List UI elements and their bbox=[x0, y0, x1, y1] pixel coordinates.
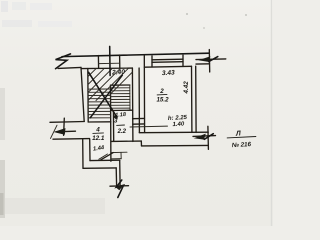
svg-text:1.40: 1.40 bbox=[172, 121, 185, 128]
stair flight diagonal down bbox=[89, 72, 117, 117]
room2 left wall inner line bbox=[143, 56, 145, 133]
stair flight diagonal up bbox=[90, 75, 122, 118]
staircase box bottom-left bbox=[88, 121, 111, 123]
staircase box left bbox=[87, 69, 89, 122]
left edge scan smudge lower bbox=[0, 160, 5, 218]
staircase box top bbox=[82, 67, 133, 70]
left edge dark spot bbox=[0, 193, 4, 215]
svg-text:1.18: 1.18 bbox=[115, 112, 127, 119]
window jamb right bbox=[182, 55, 184, 66]
top-right break bolt arrow bbox=[198, 56, 210, 62]
svg-text:12.1: 12.1 bbox=[92, 135, 105, 142]
corridor door jamb top bbox=[111, 151, 127, 153]
stair inner flight left vertical / corridor-room3 wall bbox=[110, 85, 112, 161]
left break tick bbox=[63, 118, 66, 135]
staircase box right / room3 right wall bbox=[131, 68, 134, 141]
left break arrowhead bbox=[54, 128, 66, 135]
wire: outer top wall line bbox=[62, 53, 209, 56]
leader line to h text bbox=[130, 125, 168, 128]
corridor top-left wall line bbox=[50, 121, 84, 124]
svg-text:№ 216: № 216 bbox=[232, 141, 252, 149]
room2 bottom wall top line bbox=[139, 131, 208, 134]
room3 top wall bbox=[111, 109, 133, 111]
stair tall vertical line bbox=[109, 46, 111, 75]
faint right edge line bbox=[271, 0, 272, 226]
wall dash left of 2.40 bbox=[97, 56, 99, 68]
window line 1 bbox=[152, 58, 183, 61]
corridor door jamb bottom bbox=[111, 158, 121, 160]
corridor door jamb right bbox=[120, 152, 122, 158]
window line 2 bbox=[152, 61, 183, 64]
outer bottom wall bbox=[83, 167, 116, 169]
left edge scan smudge upper bbox=[0, 88, 5, 140]
room2 right wall outer bbox=[195, 66, 197, 132]
faint specks bbox=[186, 13, 188, 15]
faint stamp remnant top-left bbox=[1, 1, 72, 27]
bottom break bolt wedge bbox=[116, 185, 124, 191]
stair treads left flight bbox=[88, 89, 111, 118]
outer left wall vertical lower bbox=[82, 139, 84, 168]
bottom-right break tail bbox=[193, 135, 216, 138]
stair inner flight right vertical bbox=[129, 85, 131, 110]
shaft rung 2 bbox=[133, 123, 145, 125]
shaft wall left line (room2 left wall outer) bbox=[138, 68, 140, 133]
bottom break bolt bbox=[116, 180, 123, 198]
lower-left wall line bbox=[53, 138, 90, 141]
svg-text:15.2: 15.2 bbox=[156, 97, 169, 104]
bottom wall lower line bbox=[142, 144, 209, 147]
corridor door leaf 2 bbox=[99, 154, 108, 159]
svg-text:4.42: 4.42 bbox=[183, 81, 190, 95]
top-right break tick bbox=[208, 50, 210, 72]
inner top-left wall line bbox=[58, 67, 81, 68]
svg-text:3.43: 3.43 bbox=[162, 69, 176, 77]
top-right break tail bbox=[196, 58, 226, 61]
svg-text:2.40: 2.40 bbox=[111, 69, 126, 77]
room interiors slightly brighter bbox=[145, 67, 192, 133]
room2 right wall inner bbox=[191, 66, 193, 132]
faint wall mid line bbox=[99, 62, 120, 64]
corridor inner left vertical bbox=[89, 139, 91, 161]
shaft left vertical to bottom break bbox=[115, 168, 117, 186]
bottom-right break tick bbox=[207, 126, 210, 149]
left break diagonal stroke bbox=[51, 125, 58, 138]
stair treads right flight bbox=[111, 88, 130, 108]
top-right break bolt slash bbox=[209, 57, 218, 62]
left wall vertical bbox=[81, 67, 84, 121]
shaft rung 1 bbox=[133, 117, 145, 119]
bottom break tick bbox=[110, 185, 129, 188]
stair arrowhead bbox=[113, 114, 118, 119]
left break arrow tail bbox=[56, 130, 76, 133]
bottom wall jog bbox=[140, 141, 142, 146]
corridor inner bottom line bbox=[90, 159, 120, 161]
svg-text:2: 2 bbox=[159, 88, 164, 95]
room3 left wall inner line bbox=[112, 111, 114, 142]
svg-text:4: 4 bbox=[95, 126, 100, 133]
stair inner flight top bbox=[111, 84, 130, 86]
room2 inner top wall bbox=[144, 65, 191, 68]
top-right stub bottom line bbox=[196, 63, 210, 65]
corridor door leaf 1 bbox=[101, 153, 113, 160]
wall dash right of 2.40 bbox=[119, 55, 121, 68]
faint bottom-left cloud bbox=[0, 198, 105, 214]
stair diagonal hatch bbox=[88, 69, 132, 101]
bottom-right break bolt arrow bbox=[194, 134, 206, 140]
window jamb left bbox=[151, 56, 153, 67]
top-left wall break zigzag bbox=[56, 54, 71, 69]
svg-text:2.2: 2.2 bbox=[117, 129, 127, 135]
shaft right vertical bbox=[119, 160, 121, 185]
room3 bottom wall line bbox=[111, 140, 141, 142]
bottom-right break bolt slash bbox=[204, 134, 213, 140]
svg-text:Л: Л bbox=[235, 130, 242, 137]
